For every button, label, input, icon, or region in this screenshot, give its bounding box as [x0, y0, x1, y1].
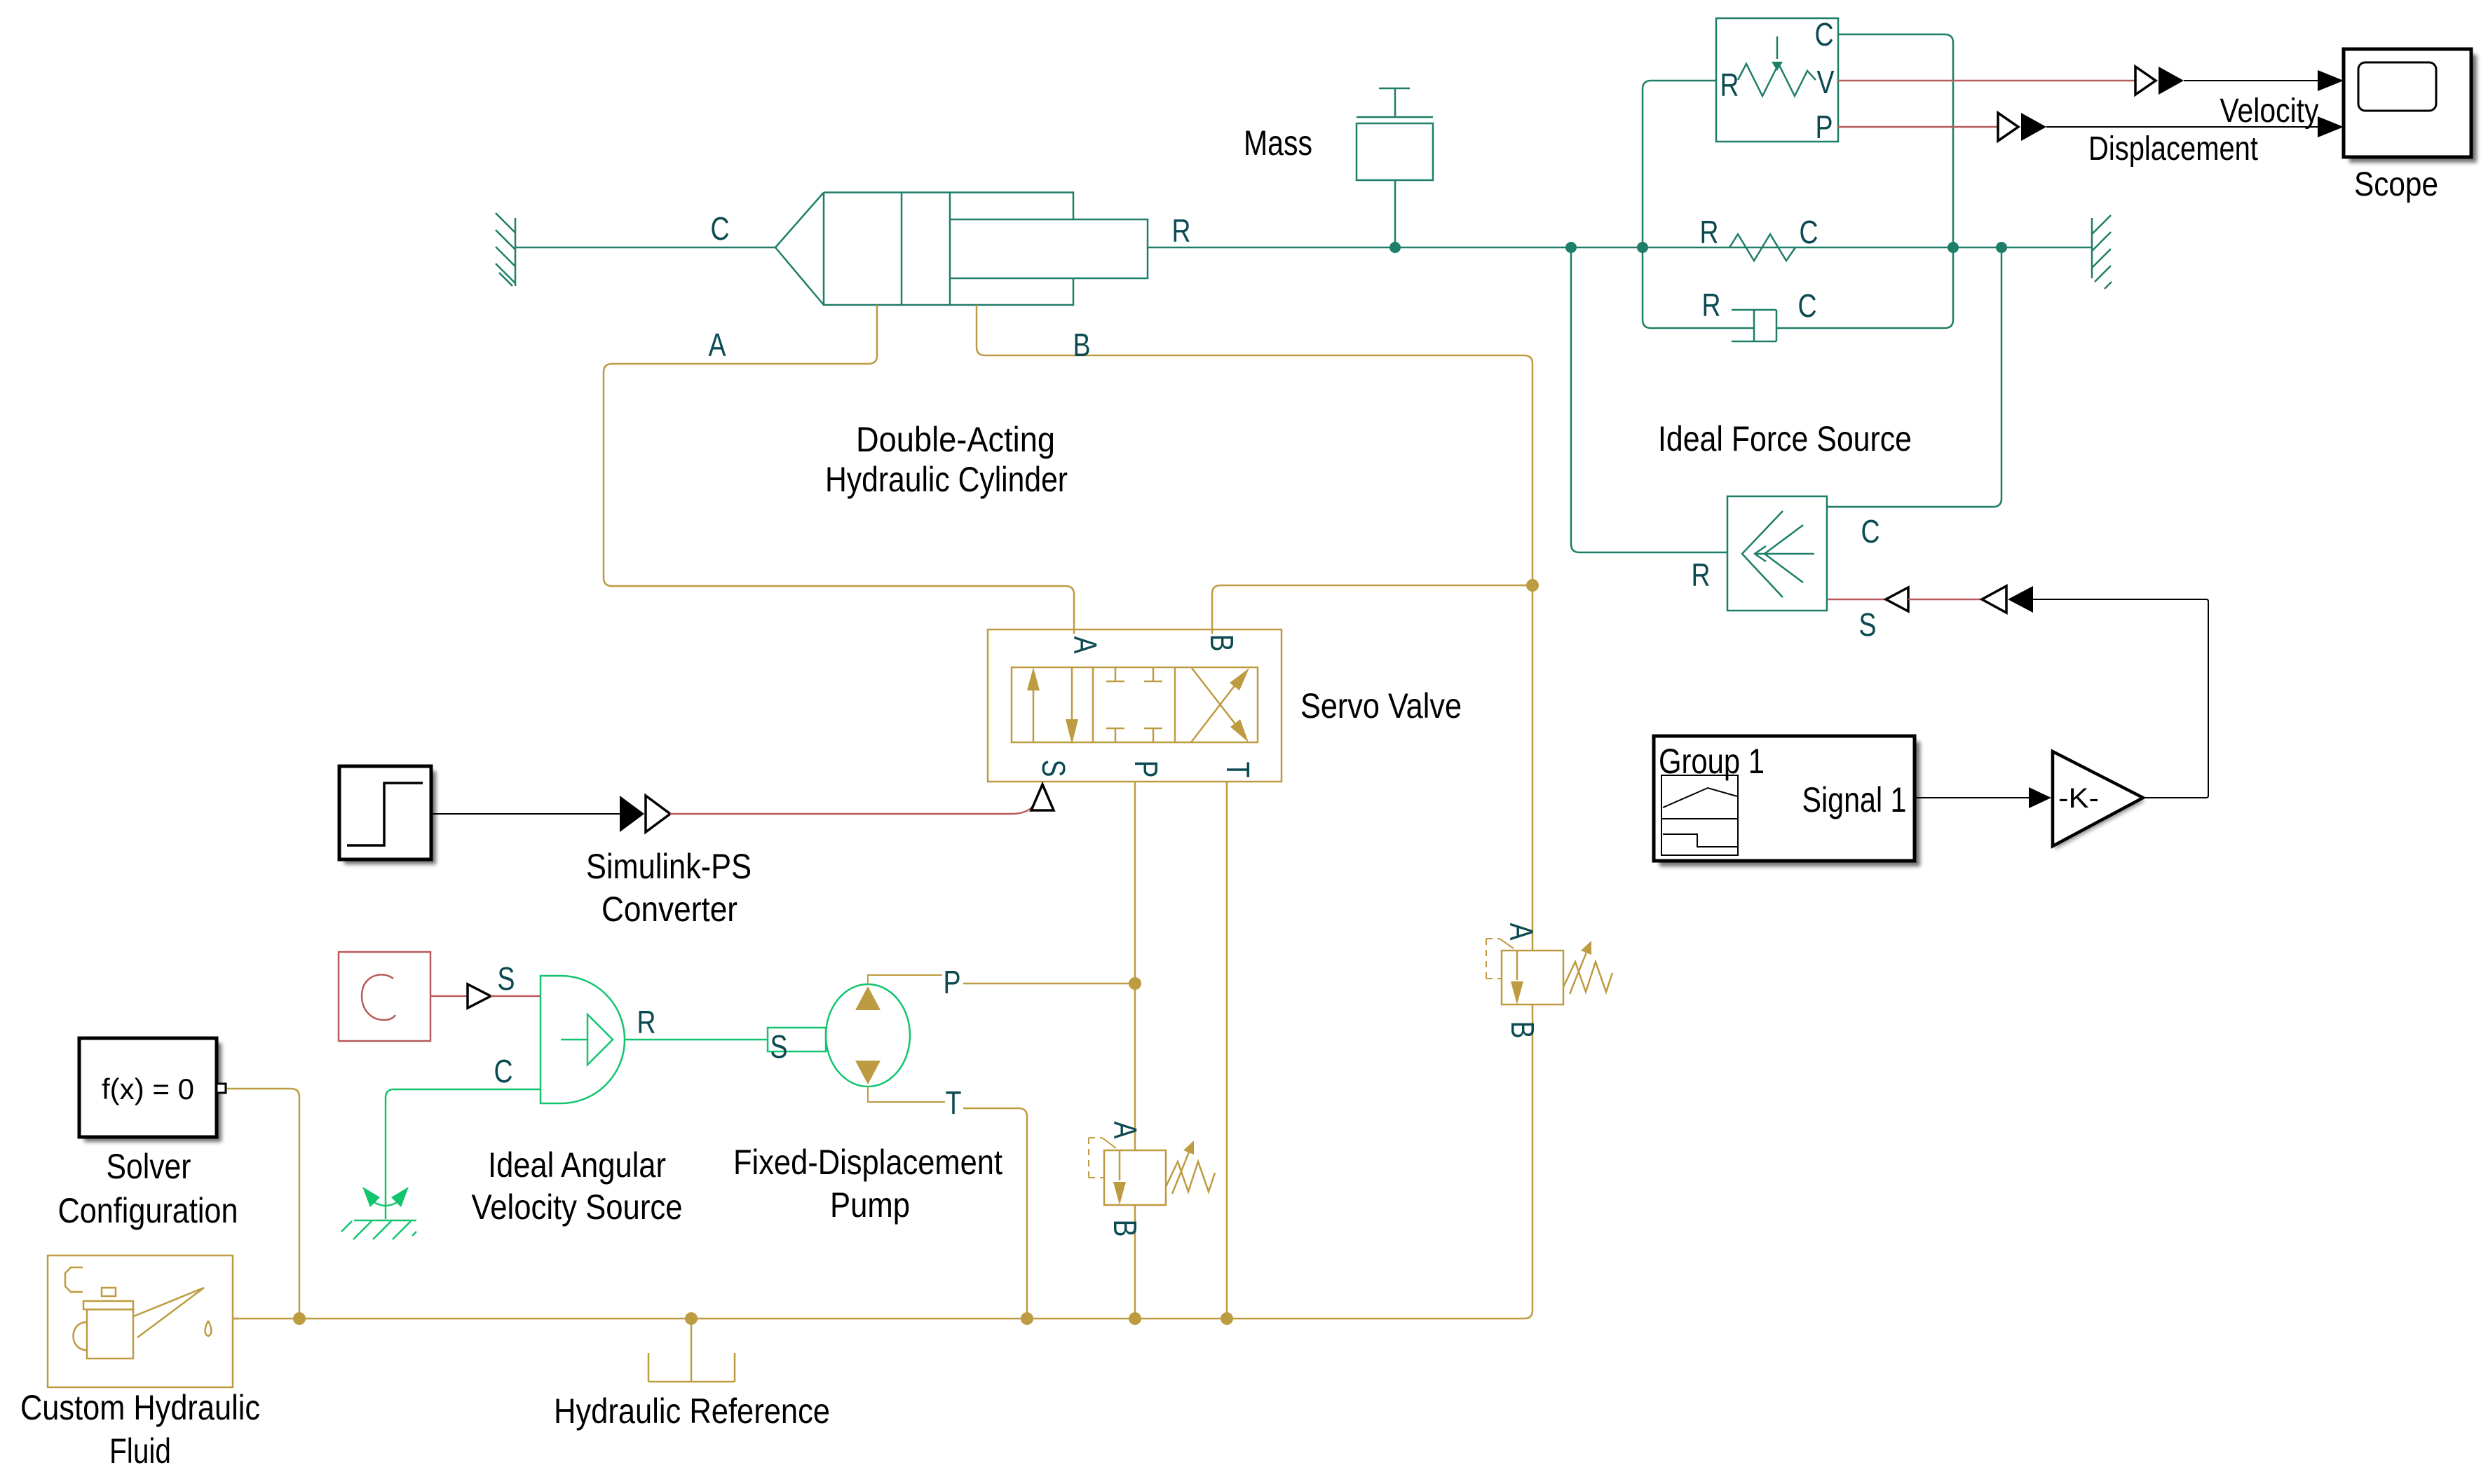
svg-text:B: B	[1504, 1021, 1541, 1039]
svg-text:S: S	[498, 960, 515, 997]
wire P: servo valve P down through relief valve 1 to tank bus	[1134, 782, 1136, 1319]
relief valve 1 pilot dashed line	[1089, 1138, 1104, 1178]
wire: pump P up to P line	[868, 975, 942, 984]
svg-text:Solver: Solver	[107, 1147, 191, 1186]
svg-text:Simulink-PS: Simulink-PS	[586, 847, 752, 886]
ideal force source block	[1727, 496, 1827, 611]
wire: junction up to motion sensor R port	[1643, 81, 1716, 247]
source inner arrow icon	[561, 1014, 613, 1065]
wire: converter to servo valve S (physical signal)	[670, 804, 1035, 814]
svg-text:R: R	[1692, 557, 1711, 593]
svg-text:Mass: Mass	[1244, 123, 1312, 163]
wire A: cylinder port A loop to servo valve A	[604, 305, 1074, 634]
relief valve 1 internal arrow	[1119, 1150, 1121, 1180]
wire: signal group to gain	[1915, 797, 2029, 798]
ps-simulink converter (velocity)	[2135, 67, 2156, 95]
wire: displacement to scope	[2046, 126, 2318, 128]
wall anchor left (translational reference)	[496, 213, 515, 286]
wire: force source C port up to node line	[1827, 247, 2001, 507]
svg-text:C: C	[1815, 16, 1834, 53]
rotational reference ground	[341, 1202, 416, 1239]
ps port triangle at source S	[468, 984, 491, 1008]
svg-text:Hydraulic Reference: Hydraulic Reference	[554, 1391, 830, 1431]
svg-text:S: S	[770, 1028, 788, 1065]
gain block -K-	[2053, 751, 2145, 850]
valve cell3 crossed arrows	[1191, 685, 1235, 742]
translational damper icon	[1732, 310, 1776, 341]
node junction force source C	[1996, 242, 2007, 253]
wire: source R to pump S	[625, 1039, 768, 1041]
wire: solver configuration to tank bus	[226, 1089, 299, 1319]
pump S shaft tab	[768, 1028, 826, 1051]
svg-text:Signal 1: Signal 1	[1802, 780, 1907, 819]
svg-text:B: B	[1107, 1220, 1143, 1237]
wire R: cylinder rod to main node line	[1148, 247, 2092, 249]
svg-text:C: C	[494, 1053, 513, 1089]
svg-text:Custom Hydraulic: Custom Hydraulic	[20, 1388, 260, 1427]
svg-text:T: T	[1220, 762, 1256, 778]
wire: servo valve B port up to B line	[1212, 585, 1532, 634]
wire: ps constant to source S	[430, 995, 468, 998]
servo valve inner 3-position box	[1012, 667, 1258, 742]
svg-text:Velocity Source: Velocity Source	[472, 1187, 683, 1227]
node junction to force source R	[1565, 242, 1577, 253]
hydraulic reference symbol	[648, 1319, 735, 1382]
node junction sensor-C / damper-C	[1948, 242, 1959, 253]
svg-text:P: P	[1128, 761, 1164, 778]
svg-text:f(x) = 0: f(x) = 0	[102, 1073, 194, 1105]
translational spring (inline on node line)	[1729, 234, 1795, 261]
ideal translational motion sensor block	[1716, 18, 1838, 142]
custom hydraulic fluid block	[48, 1255, 238, 1387]
svg-text:A: A	[1503, 923, 1539, 941]
wire: source C to rotational reference	[386, 1089, 541, 1219]
fixed-displacement pump	[826, 984, 910, 1087]
wire: gain output loop to force source	[2033, 599, 2208, 798]
svg-text:Displacement: Displacement	[2088, 130, 2258, 168]
svg-text:R: R	[1702, 287, 1721, 323]
double-acting hydraulic cylinder body	[775, 193, 1148, 306]
svg-text:A: A	[1067, 637, 1103, 654]
solver configuration block	[79, 1038, 226, 1142]
relief valve 2 spring and adjust arrow	[1563, 951, 1612, 994]
svg-text:Pump: Pump	[830, 1185, 910, 1225]
svg-text:B: B	[1073, 327, 1091, 363]
relief valve 1 spring and adjust arrow	[1166, 1150, 1215, 1194]
wire: force source S input (physical signal)	[1827, 599, 1886, 601]
svg-text:S: S	[1859, 606, 1877, 643]
svg-text:P: P	[1816, 109, 1833, 145]
svg-text:B: B	[1204, 634, 1240, 652]
valve cell1 up arrow	[1033, 688, 1035, 742]
wall anchor right (translational reference)	[2092, 215, 2112, 289]
svg-text:P: P	[944, 964, 961, 1000]
svg-text:Double-Acting: Double-Acting	[856, 420, 1055, 459]
ps port triangle at servo valve S	[1031, 784, 1054, 810]
svg-text:Ideal Force Source: Ideal Force Source	[1658, 419, 1912, 458]
junction P line	[1129, 977, 1141, 990]
svg-text:V: V	[1817, 64, 1835, 100]
svg-text:Configuration: Configuration	[58, 1191, 238, 1230]
ps constant icon	[362, 974, 395, 1020]
svg-text:C: C	[1861, 513, 1880, 550]
svg-text:R: R	[1720, 67, 1739, 103]
svg-text:C: C	[1798, 287, 1817, 324]
svg-text:Converter: Converter	[601, 890, 737, 929]
svg-text:A: A	[1107, 1122, 1143, 1139]
ps constant block	[339, 952, 430, 1041]
tank bus junctions	[293, 1312, 306, 1325]
svg-text:C: C	[1800, 214, 1819, 250]
relief valve 2 internal arrow	[1516, 951, 1518, 980]
node junction under mass	[1389, 242, 1401, 253]
svg-text:Fluid: Fluid	[109, 1431, 171, 1471]
step source block	[339, 766, 436, 864]
wire: junction to translational damper (R side)	[1643, 247, 1754, 328]
svg-text:R: R	[637, 1004, 656, 1040]
wire C: wall to cylinder	[515, 247, 775, 249]
scope block	[2344, 49, 2477, 163]
svg-text:R: R	[1172, 212, 1191, 249]
pump triangles	[855, 986, 881, 1010]
node junction spring/damper/sensor-R	[1637, 242, 1648, 253]
wire T: servo valve T down to tank bus	[1226, 782, 1228, 1319]
wire: sensor V out (physical signal)	[1838, 80, 2135, 82]
svg-text:Ideal Angular: Ideal Angular	[488, 1145, 666, 1185]
pressure relief valve 1 body	[1104, 1150, 1166, 1205]
junction B line	[1526, 579, 1539, 592]
svg-text:T: T	[946, 1084, 962, 1121]
svg-text:Velocity: Velocity	[2220, 93, 2319, 130]
svg-text:C: C	[711, 210, 730, 247]
wire: sensor C port to node line	[1838, 34, 1953, 247]
wire: sensor P out (physical signal)	[1838, 126, 1998, 128]
wire: damper C side up to node line	[1776, 247, 1953, 328]
wire: pump T down to tank bus	[868, 1087, 945, 1102]
relief valve 2 pilot dashed line	[1486, 939, 1502, 979]
valve cell2 blocked-port tees	[1106, 667, 1162, 742]
signal editor block (Group 1)	[1654, 736, 1920, 866]
pressure relief valve 2 body	[1502, 951, 1563, 1005]
ps port triangle at force source S	[1886, 587, 1908, 611]
mass block	[1357, 88, 1433, 247]
ideal angular velocity source body	[541, 976, 625, 1103]
wire: step to simulink-ps converter	[431, 813, 620, 815]
simulink-ps converter arrows	[620, 796, 644, 832]
sensor wiper arrow	[1772, 62, 1783, 71]
valve cell1 down arrow	[1071, 667, 1073, 721]
svg-text:Fixed-Displacement: Fixed-Displacement	[733, 1143, 1002, 1182]
wire B: cylinder port B down the right side through relief valve to tank bus	[233, 305, 1532, 1319]
wire: velocity to scope	[2184, 80, 2318, 81]
svg-text:-K-: -K-	[2058, 783, 2099, 814]
servo valve outer box	[988, 629, 1282, 782]
svg-text:R: R	[1700, 214, 1719, 250]
svg-text:Hydraulic Cylinder: Hydraulic Cylinder	[825, 460, 1068, 499]
svg-text:A: A	[709, 327, 726, 363]
wire: junction down to ideal force source R port	[1571, 247, 1727, 552]
simulink-ps converter (gain to force)	[1982, 586, 2006, 613]
svg-text:S: S	[1035, 760, 1072, 777]
svg-text:Servo Valve: Servo Valve	[1300, 686, 1462, 726]
ps-simulink converter (displacement)	[1998, 113, 2018, 141]
svg-text:Scope: Scope	[2354, 166, 2438, 203]
